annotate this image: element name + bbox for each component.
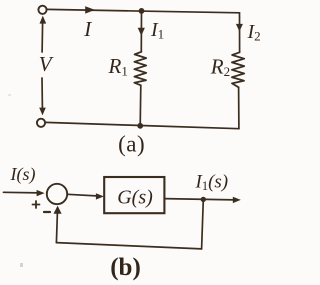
terminal circle bottom-left: [37, 119, 45, 127]
wire feedback right vertical: [202, 200, 204, 249]
wire summing to block: [67, 194, 98, 196]
wire V upper lead: [41, 23, 44, 53]
resistor R2: [232, 52, 244, 87]
label + sign: [33, 201, 40, 208]
arrowhead input: [37, 190, 45, 196]
svg-text:I1: I1: [150, 19, 164, 42]
wire block output: [164, 199, 234, 200]
svg-text:I2: I2: [247, 21, 261, 44]
summing junction U1: [47, 184, 67, 204]
svg-text:G(s): G(s): [117, 187, 153, 209]
wire R1 branch top: [140, 11, 142, 52]
wire feedback left vertical: [56, 213, 57, 243]
wire R2 bottom: [238, 87, 240, 128]
arrowhead output: [233, 197, 241, 203]
arrowhead into block: [96, 193, 104, 199]
arrowhead current I1: [138, 28, 145, 36]
arrowhead V down: [39, 108, 46, 116]
label - sign: [44, 211, 50, 213]
svg-text:I1(s): I1(s): [195, 172, 229, 194]
wire feedback bottom: [56, 243, 201, 249]
svg-text:I(s): I(s): [10, 164, 36, 185]
speckle marks (scan noise): [8, 94, 23, 267]
wire bottom (T2 to bottom-right corner): [45, 122, 239, 128]
arrowhead current I2: [236, 24, 243, 32]
wire right branch top: [239, 13, 241, 53]
svg-text:I: I: [83, 17, 92, 41]
arrowhead V up: [40, 16, 47, 24]
svg-text:R1: R1: [108, 54, 128, 79]
svg-text:V: V: [39, 52, 54, 76]
wire R1 bottom: [139, 85, 142, 126]
node junction output (dot): [201, 197, 206, 202]
arrowhead feedback up: [54, 206, 62, 214]
block G(s): [104, 177, 164, 213]
terminal circle top-left: [38, 6, 46, 14]
wire input: [3, 191, 38, 194]
wire V lower lead: [41, 78, 43, 108]
svg-text:(a): (a): [118, 132, 145, 157]
resistor R1: [134, 52, 146, 86]
arrowhead current I: [85, 6, 95, 13]
svg-text:R2: R2: [210, 55, 230, 80]
svg-text:(b): (b): [110, 254, 141, 281]
wire top (T1 to top-right corner): [47, 9, 240, 12]
node junction top (dot): [139, 8, 145, 14]
node junction bottom (dot): [137, 123, 143, 129]
